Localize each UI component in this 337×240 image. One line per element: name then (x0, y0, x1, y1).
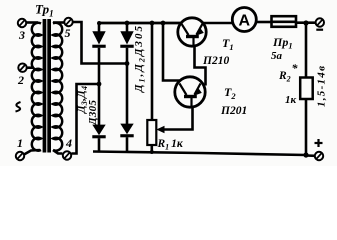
resistor R2 (300, 78, 313, 100)
diode D2 (lower right) (120, 124, 133, 153)
wire terminal 4 to bridge AC node (left column) (71, 84, 99, 154)
svg-text:Т2: Т2 (224, 85, 236, 101)
primary winding (32, 23, 41, 151)
terminal 5 (64, 18, 72, 40)
junction bottom (303, 152, 308, 157)
core (43, 19, 47, 153)
wire ammeter to fuse (256, 21, 272, 24)
label R2* (278, 61, 299, 106)
transformer Tr1 label (35, 2, 54, 19)
wire right column (126, 48, 129, 125)
svg-text:Пр1: Пр1 (272, 35, 293, 51)
wire terminal3 to primary (26, 21, 38, 24)
R1 riser from top rail (151, 23, 154, 120)
node R1 riser / top rail (150, 21, 155, 26)
bottom rail (plus) (93, 152, 306, 156)
svg-text:R11к: R11к (157, 138, 184, 152)
wire terminal2 tap to primary (27, 66, 34, 69)
wire terminal 5 to bridge AC node (right column) (73, 22, 127, 64)
diode D1 (upper right) (120, 23, 133, 48)
transistor T2 (175, 77, 205, 107)
P201 label (220, 105, 247, 117)
label D3,D4 (76, 86, 90, 114)
svg-text:5: 5 (65, 26, 71, 40)
transistor T1 (178, 18, 206, 46)
svg-text:А: А (239, 13, 251, 30)
wire left column (98, 48, 101, 126)
label 1,5-14v rotated (316, 66, 328, 107)
diode D3 (upper left) (92, 23, 105, 48)
terminal 2 (17, 63, 27, 87)
wire T2 base to R1 wiper arrow (156, 106, 192, 133)
secondary winding (53, 23, 62, 151)
resistor R1 (147, 120, 156, 154)
terminal plus (315, 139, 324, 160)
T2 collector riser (163, 23, 180, 81)
junction top rail / D1 (125, 21, 130, 26)
wire R2 to bottom rail (305, 99, 308, 156)
wire terminal1 to primary bottom (24, 150, 40, 155)
wire T1 base to T2 emitter (195, 45, 206, 86)
top rail (minus) (99, 22, 181, 25)
label D1,D2 D305 (133, 26, 147, 94)
svg-text:Д1,Д2Д305: Д1,Д2Д305 (133, 26, 147, 94)
wire secondary bottom to terminal 4 (53, 150, 62, 154)
stub to plus terminal (306, 154, 315, 157)
diode D4 (lower left) (92, 125, 105, 152)
ammeter A (232, 8, 256, 32)
svg-text:5а: 5а (271, 50, 283, 62)
svg-text:4: 4 (65, 136, 72, 150)
svg-text:1: 1 (17, 136, 23, 150)
terminal 4 (63, 136, 72, 160)
terminal 3 (18, 19, 26, 42)
svg-text:*: * (292, 61, 299, 75)
wire secondary top to terminal 5 (53, 21, 64, 24)
fuse Pr1 (271, 16, 296, 62)
label D305 left (87, 100, 99, 127)
node rail corner at D3 (97, 21, 101, 25)
svg-text:Д305: Д305 (87, 100, 99, 127)
svg-text:3: 3 (18, 28, 25, 42)
P210 label (202, 55, 229, 67)
svg-text:Тр1: Тр1 (35, 2, 54, 19)
svg-text:Т1: Т1 (222, 36, 234, 52)
junction AC1 (125, 61, 130, 66)
terminal 1 (16, 136, 24, 160)
svg-text:2: 2 (17, 73, 24, 87)
wire fuse to minus terminal (296, 21, 316, 24)
top rail T1 to ammeter (204, 22, 234, 25)
label R1 1k (157, 138, 184, 152)
AC tilde mark (16, 102, 21, 112)
terminal minus (316, 18, 324, 31)
svg-text:1,5-14в: 1,5-14в (316, 66, 328, 107)
R2 riser (305, 23, 308, 78)
svg-text:R2: R2 (278, 70, 291, 84)
svg-text:1к: 1к (285, 94, 297, 106)
junction to R2 (303, 20, 308, 25)
T1 label (222, 36, 234, 52)
T2 label (224, 85, 236, 101)
junction AC2 (97, 82, 102, 87)
svg-text:П210: П210 (202, 55, 229, 67)
svg-text:П201: П201 (220, 105, 247, 117)
node T2 collector / top rail (161, 21, 166, 26)
